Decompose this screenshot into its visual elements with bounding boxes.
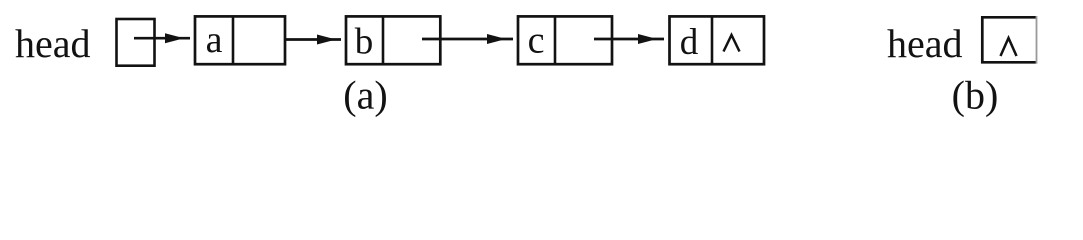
node c divider	[554, 16, 557, 64]
svg-text:head: head	[887, 21, 963, 66]
wire node c to node d	[594, 34, 664, 44]
node a divider	[232, 16, 235, 64]
node b box	[346, 16, 440, 64]
node d null mark	[724, 35, 740, 52]
svg-text:(b): (b)	[952, 73, 999, 118]
node c box	[518, 16, 612, 64]
svg-text:d: d	[680, 22, 699, 63]
node d box	[670, 16, 765, 64]
svg-text:b: b	[355, 22, 374, 63]
head pointer box (list a)	[117, 19, 155, 66]
node a box	[195, 16, 285, 64]
wire node b to node c	[422, 34, 513, 44]
svg-text:(a): (a)	[343, 73, 387, 118]
svg-text:c: c	[528, 20, 545, 62]
wire node a to node b	[285, 35, 341, 45]
empty list box (list b)	[982, 16, 1036, 64]
node d divider	[711, 16, 714, 64]
node b divider	[382, 16, 385, 64]
wire head to node a	[134, 33, 190, 43]
svg-text:head: head	[15, 21, 91, 66]
empty list null mark	[1001, 38, 1017, 56]
svg-text:a: a	[206, 19, 223, 61]
